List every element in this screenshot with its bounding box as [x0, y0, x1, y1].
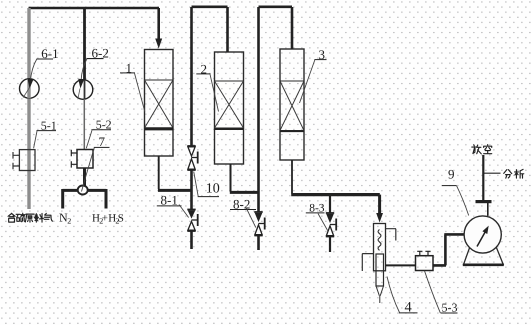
svg-text:9: 9 — [448, 166, 455, 181]
svg-text:10: 10 — [206, 181, 220, 196]
svg-text:7: 7 — [99, 134, 106, 149]
svg-text:2: 2 — [67, 216, 71, 225]
svg-text:5-2: 5-2 — [96, 117, 112, 131]
svg-text:+: + — [102, 212, 108, 224]
svg-text:S: S — [118, 212, 124, 224]
svg-text:8-1: 8-1 — [161, 193, 178, 208]
svg-text:5-3: 5-3 — [442, 300, 458, 314]
